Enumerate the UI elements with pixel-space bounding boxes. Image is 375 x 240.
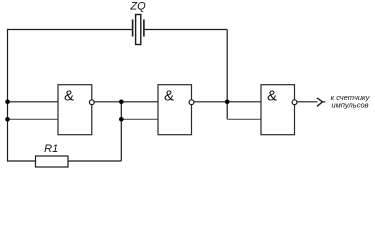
wire: gate3 output to arrow bbox=[297, 101, 317, 103]
NAND gate DD1.2 bbox=[158, 85, 194, 135]
node: right column junction bbox=[225, 100, 230, 105]
NAND gate DD1.1 bbox=[58, 85, 94, 135]
wire: left vertical rail bbox=[7, 29, 9, 162]
node: left rail lower junction bbox=[5, 117, 10, 122]
wire: gate1 input 1 from left rail bbox=[8, 101, 59, 103]
svg-text:&: & bbox=[64, 87, 74, 104]
node: middle column upper junction bbox=[119, 100, 124, 105]
wire: middle column vertical (feedback to R1) bbox=[120, 102, 122, 161]
crystal ZQ bbox=[133, 15, 144, 45]
node: left rail upper junction bbox=[5, 100, 10, 105]
wire: gate1 input 2 from left rail bbox=[8, 118, 59, 120]
wire: gate3 input 2 branch bbox=[227, 118, 261, 120]
wire: bottom rail right segment (R1 to middle column) bbox=[68, 160, 121, 162]
svg-text:импульсов: импульсов bbox=[331, 100, 368, 109]
wire: gate2 input 2 branch bbox=[121, 118, 158, 120]
svg-text:&: & bbox=[267, 87, 277, 104]
svg-text:R1: R1 bbox=[44, 143, 58, 155]
output arrow tail bbox=[323, 101, 326, 103]
wire: top rail right segment (crystal right plate to right column) bbox=[144, 29, 227, 31]
node: middle column lower junction bbox=[119, 117, 124, 122]
svg-text:&: & bbox=[164, 87, 174, 104]
wire: gate1 output to gate2 input 1 bbox=[94, 101, 158, 103]
wire: gate2 output to gate3 input 1 bbox=[194, 101, 261, 103]
wire: top rail left segment (left rail to crystal left plate) bbox=[8, 29, 133, 31]
output arrowhead bbox=[317, 98, 323, 106]
NAND gate DD1.3 bbox=[261, 85, 297, 135]
resistor R1 bbox=[36, 156, 69, 167]
wire: right column vertical from top rail bbox=[226, 30, 228, 120]
svg-text:ZQ: ZQ bbox=[129, 1, 146, 13]
wire: bottom rail left segment (left rail to R1) bbox=[8, 160, 36, 162]
